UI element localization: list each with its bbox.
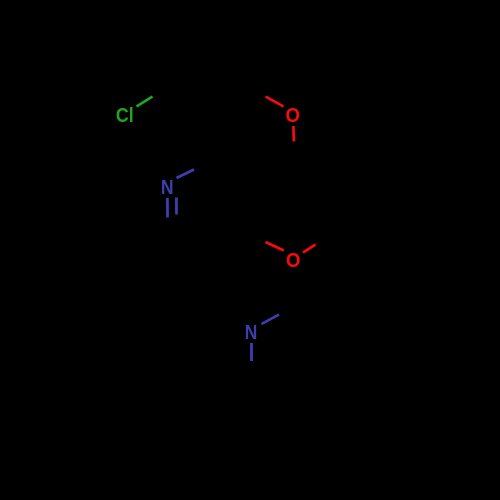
bond N2-C11 blue half — [262, 315, 280, 325]
wire O2-C4 black half — [241, 228, 266, 242]
wire N2-C11 black half — [279, 301, 305, 315]
wire O1-C9 black half — [293, 144, 296, 176]
bond N1-C2 blue half — [177, 170, 195, 179]
bond N2-C12 blue half — [250, 343, 253, 361]
bond N1=C6 blue half main — [166, 198, 169, 218]
svg-text:O: O — [286, 250, 300, 272]
wire O2-C10 black half — [316, 228, 347, 245]
bond N1=C6 blue half inner — [175, 198, 178, 215]
wire C7-C8 (CH2-CH2, black invisible) — [178, 82, 240, 84]
svg-text:N: N — [245, 321, 258, 343]
wire N1=C6 black half main — [166, 218, 168, 248]
bond O2-C4 red half — [266, 242, 284, 251]
wire Cl-C7 black half — [153, 84, 179, 97]
wire N2-C12 black half — [250, 361, 252, 393]
wire C8-O1 black half — [240, 84, 266, 97]
bond O1-C9 red half — [292, 126, 295, 142]
svg-text:O: O — [285, 105, 299, 127]
wire N1=C6 black half inner — [175, 215, 177, 233]
svg-text:Cl: Cl — [116, 105, 134, 127]
wire N1-C2 black half — [194, 156, 221, 170]
bond Cl-C7 green half — [137, 97, 153, 107]
bond O1-C8 red half — [266, 97, 284, 107]
bond O2-C10 red half — [303, 245, 316, 253]
svg-text:N: N — [161, 176, 174, 198]
